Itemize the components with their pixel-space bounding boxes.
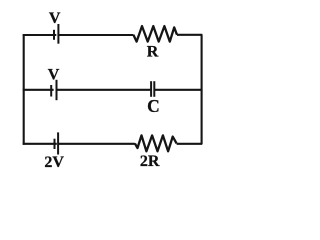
wire: bottom branch, resistor to right rail	[177, 143, 203, 145]
wire: top branch, left segment into battery	[23, 34, 57, 36]
wire: left rail	[23, 34, 25, 145]
wire: bottom branch, left segment into battery	[23, 143, 57, 145]
capacitor C right plate	[153, 81, 155, 97]
wire: middle branch, battery to capacitor	[57, 89, 152, 91]
wire: top branch, resistor to right rail	[177, 34, 202, 36]
svg-text:R: R	[147, 43, 159, 60]
svg-text:V: V	[48, 66, 60, 83]
wire: top branch, battery to resistor	[58, 34, 133, 36]
svg-text:2R: 2R	[140, 153, 160, 170]
wire: middle branch, capacitor to right rail	[154, 89, 202, 91]
wire: bottom branch, battery to resistor	[58, 143, 135, 145]
wire: right rail	[201, 35, 203, 145]
svg-text:2V: 2V	[44, 154, 64, 171]
svg-text:C: C	[147, 96, 160, 116]
battery cell 2V (bottom branch) long positive plate	[57, 132, 59, 154]
battery cell V (top branch) short negative plate	[53, 30, 55, 40]
resistor 2R zigzag	[135, 135, 177, 151]
svg-text:V: V	[49, 10, 61, 27]
battery cell V (middle branch) long positive plate	[56, 80, 58, 100]
battery cell V (middle branch) short negative plate	[50, 85, 52, 97]
battery cell 2V (bottom branch) short negative plate	[54, 139, 56, 149]
battery cell V (top branch) long positive plate	[57, 24, 59, 44]
wire: middle branch, left segment into battery	[23, 89, 54, 91]
capacitor C left plate	[150, 81, 152, 97]
resistor R zigzag	[133, 26, 177, 41]
